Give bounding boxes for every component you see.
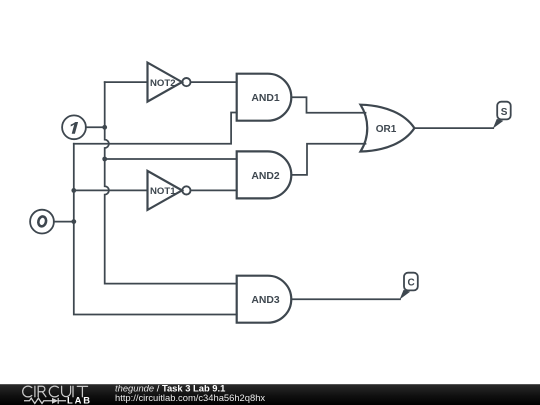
wire OR1 output to S bbox=[414, 127, 493, 129]
and-gate AND1 bbox=[237, 74, 292, 121]
input node 1 bbox=[62, 115, 86, 139]
wire AND2 output to OR1 bbox=[291, 144, 365, 175]
wire node0 to AND1 lower input bbox=[74, 113, 237, 144]
junction dot node0-bus bbox=[71, 219, 76, 224]
svg-text:S: S bbox=[501, 107, 508, 118]
terminal flag S bbox=[493, 102, 511, 129]
wire AND3 output to C bbox=[291, 298, 400, 300]
wire vertical bus B with hops bbox=[105, 82, 237, 284]
svg-text:C: C bbox=[407, 277, 414, 288]
wire NOT2 input bbox=[105, 81, 148, 83]
terminal flag C bbox=[400, 273, 418, 300]
svg-text:AND2: AND2 bbox=[251, 171, 280, 182]
svg-text:AND3: AND3 bbox=[251, 295, 280, 306]
label 0 bbox=[37, 216, 47, 228]
svg-text:NOT2: NOT2 bbox=[150, 78, 176, 89]
and-gate AND2 bbox=[237, 151, 292, 198]
or-gate OR1 bbox=[361, 105, 415, 152]
wire AND2 top input bbox=[105, 158, 237, 160]
svg-text:OR1: OR1 bbox=[376, 124, 397, 135]
wire node0 stub bbox=[54, 221, 74, 223]
logo word CIRCUIT (drawn thin) bbox=[23, 386, 88, 397]
inverter NOT2 bbox=[148, 63, 191, 102]
junction dot AND2-top bbox=[102, 157, 107, 162]
wire AND1 output to OR1 bbox=[291, 97, 365, 113]
wire NOT1 output to AND2 bbox=[191, 189, 237, 191]
wire vertical bus A bbox=[74, 144, 237, 315]
junction dot NOT1-in bbox=[71, 188, 76, 193]
input node 0 bbox=[30, 210, 54, 234]
logo diode bbox=[52, 398, 58, 404]
wire node1 stub bbox=[86, 126, 105, 128]
wire NOT2 output to AND1 bbox=[191, 81, 237, 83]
inverter NOT1 bbox=[148, 171, 191, 210]
svg-text:NOT1: NOT1 bbox=[150, 186, 176, 197]
svg-text:AND1: AND1 bbox=[251, 93, 280, 104]
junction dot node1-bus bbox=[102, 125, 107, 130]
svg-text:http://circuitlab.com/c34ha56h: http://circuitlab.com/c34ha56h2q8hx bbox=[115, 392, 265, 403]
svg-text:LAB: LAB bbox=[67, 395, 92, 405]
and-gate AND3 bbox=[237, 276, 292, 323]
logo resistor bbox=[24, 398, 52, 403]
wire node0 to NOT1 input bbox=[74, 189, 148, 191]
label 1 bbox=[71, 122, 78, 134]
